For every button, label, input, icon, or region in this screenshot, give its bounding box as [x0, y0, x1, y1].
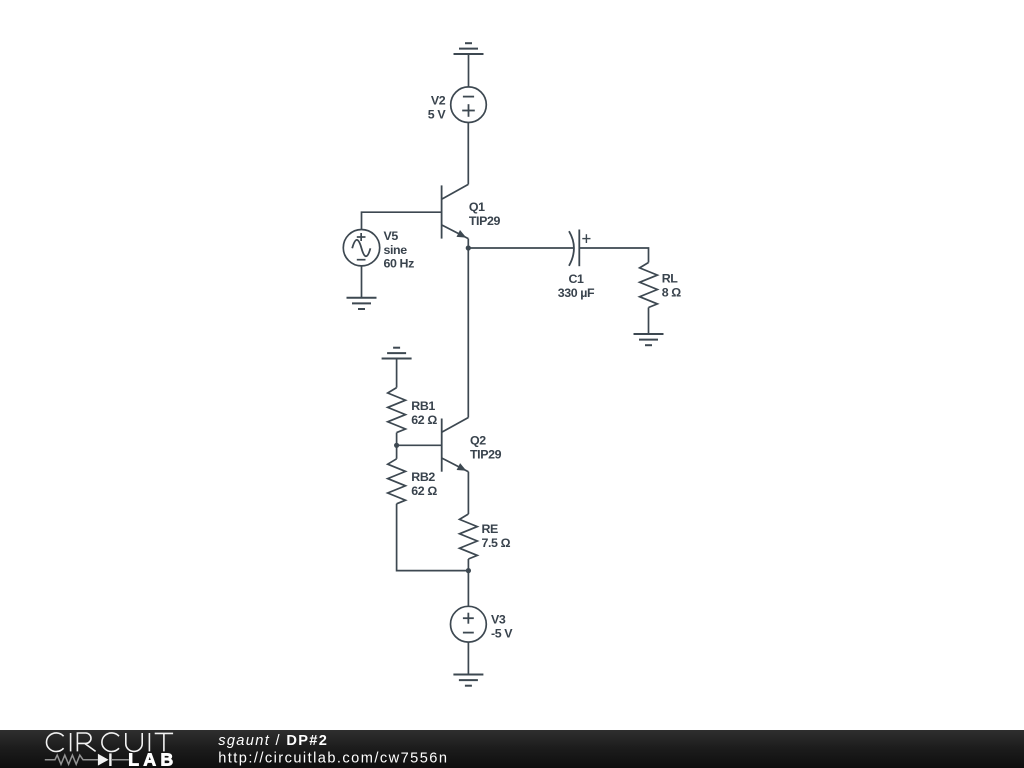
wire V3 to ground — [467, 642, 469, 674]
resistor RE — [460, 514, 478, 559]
wire Q2 emitter to RE — [467, 472, 469, 514]
letter I — [148, 733, 150, 751]
ground (below V5) — [347, 298, 377, 309]
svg-text:RB2: RB2 — [411, 470, 435, 484]
transistor Q1 — [441, 185, 443, 238]
resistor RB2 — [388, 459, 406, 504]
svg-text:60 Hz: 60 Hz — [384, 256, 415, 270]
sine source V5 — [343, 230, 379, 266]
svg-text:RB1: RB1 — [411, 399, 435, 413]
wire node A down to Q2 collector — [467, 239, 469, 418]
wire ground to V2 — [468, 54, 470, 87]
svg-text:RE: RE — [482, 522, 499, 536]
wire node B to RB2 — [396, 445, 398, 459]
resistor RB1 — [388, 388, 406, 433]
voltage source V2 — [451, 87, 487, 123]
voltage source V3 — [451, 606, 487, 642]
letter T — [155, 733, 173, 751]
wire V2 to Q1 collector — [467, 123, 469, 185]
letter U — [126, 733, 142, 751]
svg-text:330 µF: 330 µF — [558, 286, 595, 300]
svg-text:Q2: Q2 — [470, 434, 486, 448]
letter C — [102, 733, 119, 752]
capacitor C1 — [569, 231, 574, 266]
svg-text:V3: V3 — [491, 612, 506, 626]
letter I — [70, 733, 72, 751]
wire V5 to ground — [361, 266, 363, 298]
wire node B to Q2 base — [397, 444, 442, 446]
svg-text:RL: RL — [662, 272, 679, 286]
svg-text:TIP29: TIP29 — [469, 214, 501, 228]
svg-text:Q1: Q1 — [469, 200, 485, 214]
node C (RE/V3 junction) — [466, 568, 471, 573]
letter R — [77, 733, 95, 751]
ground (top, above V2) — [454, 43, 484, 54]
svg-text:5 V: 5 V — [428, 107, 447, 121]
svg-text:62 Ω: 62 Ω — [411, 413, 437, 427]
svg-text:V5: V5 — [384, 229, 399, 243]
svg-text:TIP29: TIP29 — [470, 448, 502, 462]
wire ground to RB1 — [396, 359, 398, 388]
CircuitLab logo resistor-diode glyph — [45, 755, 129, 764]
svg-text:-5 V: -5 V — [491, 626, 513, 640]
ground (bottom, below V3) — [453, 675, 483, 686]
wire RE to node C — [467, 559, 469, 571]
svg-text:LAB: LAB — [128, 750, 177, 768]
wire RB1 to node B — [396, 433, 398, 446]
svg-text:62 Ω: 62 Ω — [411, 484, 437, 498]
ground (below RL) — [634, 334, 664, 345]
svg-text:7.5 Ω: 7.5 Ω — [482, 536, 511, 550]
schematic labels — [384, 93, 682, 640]
wire RB2 to node C — [397, 504, 469, 571]
svg-text:sgaunt / DP#2: sgaunt / DP#2 — [218, 733, 328, 749]
svg-text:8 Ω: 8 Ω — [662, 286, 682, 300]
CircuitLab logo word CIRCUIT (drawn letters) — [46, 733, 173, 752]
wire Q1 base to V5 — [362, 212, 442, 229]
node B (RB1/RB2 junction) — [394, 443, 399, 448]
svg-text:V2: V2 — [431, 93, 446, 107]
wire RL to ground — [648, 308, 650, 335]
svg-text:http://circuitlab.com/cw7556n: http://circuitlab.com/cw7556n — [218, 750, 448, 766]
node A (Q1 emitter junction) — [466, 245, 471, 250]
letter C — [46, 733, 63, 752]
wire node A to C1 — [468, 247, 573, 249]
ground (above RB1) — [382, 348, 412, 359]
transistor Q2 — [441, 419, 443, 472]
footer background bar — [0, 730, 1024, 768]
wire C1 to RL — [579, 248, 648, 263]
wire node C to V3 — [467, 571, 469, 607]
resistor RL — [640, 263, 658, 308]
svg-text:C1: C1 — [568, 272, 584, 286]
svg-text:sine: sine — [384, 243, 408, 257]
